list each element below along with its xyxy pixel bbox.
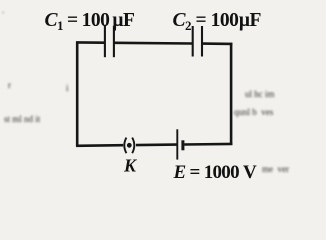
wire: top side, capacitor C2 to right corner [203, 42, 233, 45]
wire: left vertical side [76, 41, 79, 146]
wire: bottom side, battery E to right corner [184, 143, 232, 146]
svg-text:.: . [2, 5, 4, 15]
svg-text:E = 1000 V: E = 1000 V [173, 162, 257, 183]
wire: bottom side, left corner to switch K [76, 144, 123, 147]
svg-text:ul hc im: ul hc im [245, 89, 275, 99]
wire: right vertical side [230, 43, 233, 145]
svg-text:r: r [8, 80, 11, 90]
svg-text:st ml nd it: st ml nd it [4, 114, 41, 124]
wire: bottom side, switch K to battery E [136, 143, 177, 146]
svg-text:qunl b ves: qunl b ves [234, 107, 274, 117]
wire: top side, left corner to capacitor C1 [76, 41, 104, 44]
wire: top side, capacitor C1 to capacitor C2 [115, 41, 193, 44]
capacitor C1 [105, 26, 114, 57]
svg-text:K: K [123, 156, 138, 176]
battery E (cell: long thin plate + short thick plate) [177, 129, 183, 159]
svg-text:me ver: me ver [262, 164, 289, 174]
capacitor C2 [193, 26, 202, 57]
switch K (spark-gap style: two arcs with centre dot) [124, 138, 134, 154]
